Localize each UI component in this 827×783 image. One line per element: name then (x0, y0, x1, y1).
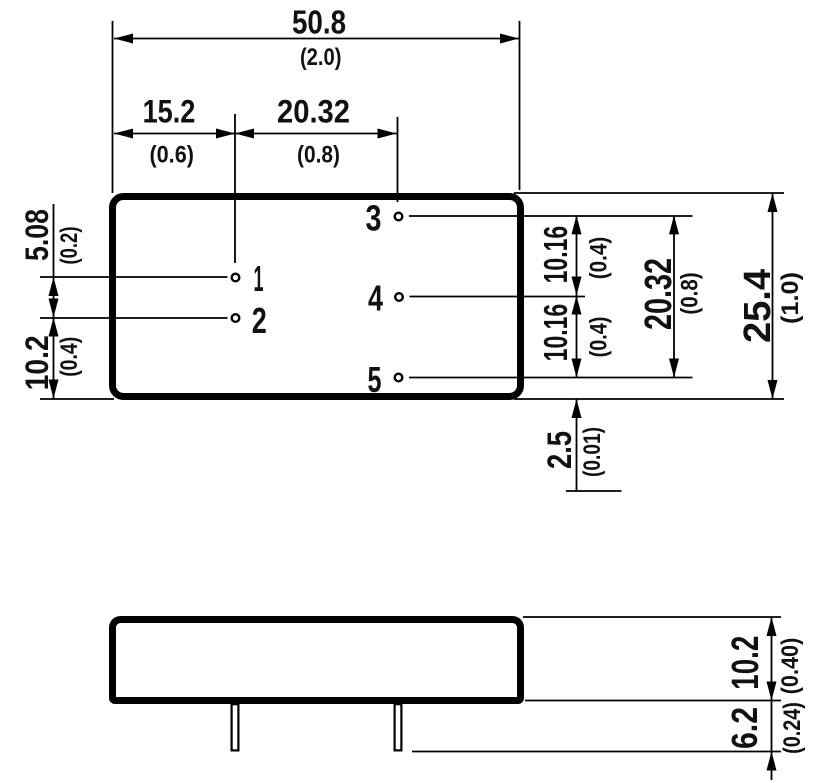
svg-text:2.5: 2.5 (541, 431, 579, 469)
dimension 15.2 (0.6) pin column 1 offset (114, 94, 235, 169)
redraw pins over body fill (232, 704, 239, 750)
extension line side bottom of body (525, 700, 781, 702)
leader line pin 5 horizontal (409, 377, 693, 379)
svg-text:1: 1 (254, 258, 264, 299)
svg-text:(0.40): (0.40) (777, 638, 804, 695)
svg-text:5.08: 5.08 (19, 209, 55, 261)
svg-text:(0.01): (0.01) (579, 427, 606, 477)
svg-text:(0.6): (0.6) (149, 142, 194, 169)
pin 3 (395, 213, 403, 221)
leader line pin 3 vertical (397, 117, 399, 202)
leader line pin 3 horizontal (409, 215, 693, 217)
svg-text:10.16: 10.16 (537, 304, 574, 362)
dimension 10.2 (0.40) body height (725, 617, 804, 701)
svg-text:4: 4 (368, 278, 383, 319)
dimension 10.16 (0.4) pin3-pin4 (537, 215, 613, 295)
pin B (side view) (395, 697, 402, 750)
dimension 20.32 (0.8) pin3-pin5 (638, 215, 704, 377)
svg-text:6.2: 6.2 (724, 707, 765, 749)
svg-text:(2.0): (2.0) (300, 44, 342, 71)
svg-text:(0.4): (0.4) (586, 317, 613, 358)
svg-text:(0.8): (0.8) (297, 142, 340, 169)
svg-text:(0.8): (0.8) (677, 272, 704, 314)
dimension 6.2 (0.24) pin length (724, 701, 806, 781)
svg-text:3: 3 (366, 198, 382, 239)
svg-text:5: 5 (368, 359, 382, 400)
leader line pin 4 horizontal (410, 296, 586, 298)
svg-text:15.2: 15.2 (143, 94, 196, 130)
dimension 10.2 (0.4) pin2 to bottom (19, 318, 83, 399)
leader line pin 1 vertical (234, 114, 236, 263)
svg-text:10.2: 10.2 (725, 636, 767, 690)
svg-text:(1.0): (1.0) (777, 272, 804, 324)
extension line top right (514, 192, 784, 194)
svg-text:(0.24): (0.24) (779, 702, 806, 754)
pin 5 (395, 374, 403, 382)
svg-text:25.4: 25.4 (737, 269, 779, 343)
svg-text:10.2: 10.2 (19, 335, 55, 390)
pin 2 (232, 314, 240, 322)
svg-text:(0.4): (0.4) (56, 337, 83, 377)
pin 1 (232, 274, 240, 282)
pin 4 (395, 293, 403, 301)
dimension 5.08 (0.2) pin1-pin2 spacing (19, 204, 83, 318)
leader line pin 2 horizontal (40, 317, 228, 319)
extension line bottom right (514, 398, 784, 400)
svg-text:10.16: 10.16 (537, 226, 574, 284)
extension line side top (523, 616, 781, 618)
dimension 2.5 (0.01) pin5 to bottom (541, 399, 622, 491)
svg-text:(0.2): (0.2) (56, 227, 83, 265)
svg-text:(0.4): (0.4) (586, 237, 613, 280)
dimension 50.8 (2.0) overall width (113, 4, 520, 194)
dimension 20.32 (0.8) pin column spacing (235, 94, 397, 169)
dimension 25.4 (1.0) overall height (737, 193, 804, 399)
body outline (top view) (113, 197, 521, 397)
svg-text:20.32: 20.32 (277, 94, 350, 130)
svg-text:2: 2 (252, 300, 267, 341)
svg-text:20.32: 20.32 (638, 258, 680, 330)
pin A (side view) (232, 697, 239, 750)
leader line pin 1 horizontal (40, 276, 228, 278)
extension line bottom left (40, 398, 114, 400)
extension line pin tips (412, 751, 781, 753)
body outline (side view) (113, 620, 521, 701)
dimension 10.16 (0.4) pin4-pin5 (537, 296, 613, 378)
svg-text:50.8: 50.8 (292, 4, 346, 41)
